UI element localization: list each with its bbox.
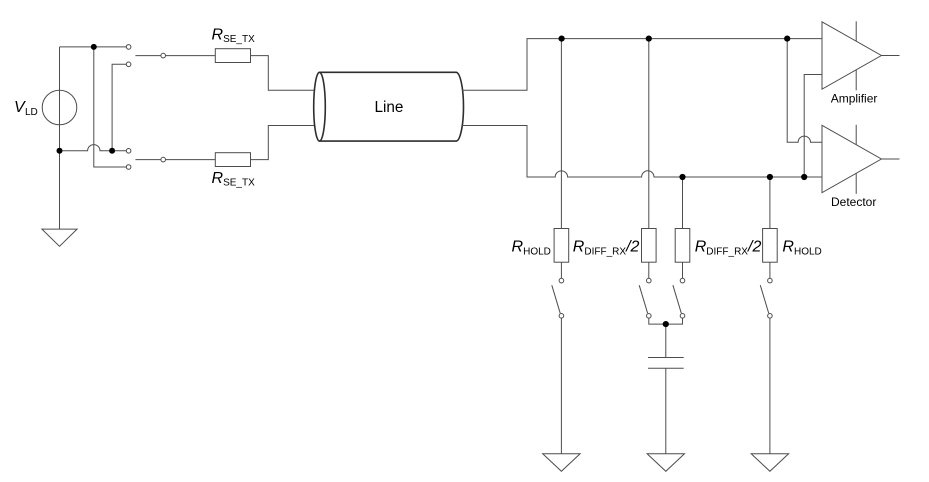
svg-text:LD: LD bbox=[25, 107, 38, 118]
svg-text:DIFF_RX: DIFF_RX bbox=[584, 246, 626, 257]
svg-text:R: R bbox=[782, 238, 794, 255]
svg-text:R: R bbox=[512, 238, 524, 255]
svg-text:R: R bbox=[573, 238, 585, 255]
svg-text:SE_TX: SE_TX bbox=[223, 178, 255, 189]
svg-text:Line: Line bbox=[375, 99, 404, 116]
svg-text:/2: /2 bbox=[625, 238, 639, 255]
svg-text:Amplifier: Amplifier bbox=[831, 92, 878, 106]
svg-text:DIFF_RX: DIFF_RX bbox=[706, 246, 748, 257]
svg-text:HOLD: HOLD bbox=[523, 246, 551, 257]
svg-text:R: R bbox=[212, 170, 224, 187]
svg-text:SE_TX: SE_TX bbox=[223, 34, 255, 45]
svg-text:/2: /2 bbox=[747, 238, 761, 255]
svg-text:Detector: Detector bbox=[831, 195, 876, 209]
svg-text:HOLD: HOLD bbox=[794, 246, 822, 257]
svg-text:R: R bbox=[695, 238, 707, 255]
svg-text:R: R bbox=[212, 26, 224, 43]
